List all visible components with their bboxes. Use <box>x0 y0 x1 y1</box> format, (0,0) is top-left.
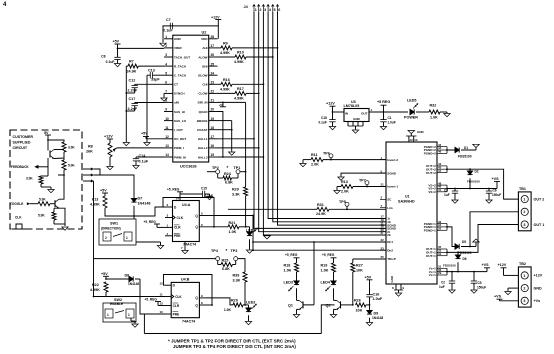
diode D8 1N4148 <box>105 278 107 280</box>
capacitor C2 1uF <box>451 271 453 273</box>
svg-text:SGND: SGND <box>387 171 397 175</box>
svg-text:13: 13 <box>165 144 169 148</box>
regulator U3 LM78L05 body <box>344 109 369 122</box>
U3 ground pins <box>347 122 349 127</box>
svg-text:9: 9 <box>165 108 167 112</box>
U2 pin 3 TACH_OUT <box>164 56 173 58</box>
svg-text:D7: D7 <box>138 197 143 201</box>
svg-text:5: 5 <box>274 8 276 12</box>
svg-text:R11: R11 <box>311 153 318 157</box>
svg-text:TP6: TP6 <box>323 151 330 155</box>
svg-text:OUT 2: OUT 2 <box>534 197 545 201</box>
svg-text:10: 10 <box>165 117 169 121</box>
svg-text:+12V: +12V <box>534 274 543 278</box>
U1 pin 47 OUT=2 <box>437 172 447 174</box>
resistor R13 4.99K <box>103 196 107 208</box>
svg-text:4: 4 <box>165 62 167 66</box>
svg-text:18: 18 <box>211 126 215 130</box>
svg-text:R13: R13 <box>341 180 348 184</box>
svg-text:CLR: CLR <box>173 304 180 308</box>
svg-text:GND: GND <box>534 286 543 290</box>
U1 pin 48 VS=2 <box>437 184 447 186</box>
svg-text:D1: D1 <box>464 146 468 150</box>
ground at SW1 <box>136 241 161 243</box>
U1 pin 21 Invert-1 <box>380 186 386 188</box>
wire VS=2 net <box>447 188 497 190</box>
svg-text:+5_REG: +5_REG <box>322 253 335 257</box>
svg-text:C7: C7 <box>166 18 171 22</box>
svg-text:CHI: CHI <box>202 83 207 87</box>
svg-text:+12V: +12V <box>326 102 335 106</box>
svg-text:R32: R32 <box>430 104 437 108</box>
wire PGND=2 junction bar <box>446 147 448 154</box>
U2 pin 5 C_TACH <box>164 74 173 76</box>
svg-text:R39: R39 <box>233 273 240 277</box>
svg-text:R20: R20 <box>231 299 238 303</box>
wire R31 left segment <box>228 208 314 210</box>
svg-text:* JUMPER TP1 & TP2 FOR DIRECT: * JUMPER TP1 & TP2 FOR DIRECT DIR CTL (E… <box>168 339 296 344</box>
U1 pin 40 VS=2 <box>437 188 447 190</box>
U1 pin 41 VS=2 <box>437 191 447 193</box>
U4:A pin 5 Q <box>199 215 214 217</box>
svg-text:150uF: 150uF <box>492 193 501 197</box>
wire Q1 base <box>303 242 314 305</box>
svg-text:2.2nF: 2.2nF <box>128 89 138 93</box>
svg-text:I_OUT: I_OUT <box>174 128 183 132</box>
switch SW2 ENABLE <box>103 303 136 322</box>
wire J4 pin4 vertical to DIR line <box>268 12 386 219</box>
LED LED5 POWER <box>410 109 414 114</box>
svg-text:U2: U2 <box>202 31 207 35</box>
svg-text:GND: GND <box>417 130 425 134</box>
ground at SW2 <box>130 318 132 321</box>
svg-text:2l: 2l <box>381 231 384 235</box>
op-amp U1 SA306 body <box>386 142 437 284</box>
terminal block TB2 <box>518 267 531 307</box>
wire J4 pin1 vertical + bend to U1 bus <box>254 12 386 228</box>
svg-text:Dir2: Dir2 <box>387 248 393 252</box>
U2 pin 25 BHI <box>209 65 218 67</box>
svg-text:0.1uF: 0.1uF <box>163 29 173 33</box>
wire R13 to SW1 node <box>105 208 134 216</box>
svg-text:1: 1 <box>523 198 525 202</box>
svg-text:0.1uF: 0.1uF <box>139 160 149 164</box>
svg-text:27: 27 <box>211 44 215 48</box>
svg-text:R29: R29 <box>232 187 239 191</box>
connector J4 pin 1 <box>253 5 256 13</box>
svg-text:31: 31 <box>438 252 442 256</box>
resistor R29 3.3K <box>244 187 248 196</box>
svg-text:16: 16 <box>211 144 215 148</box>
U2 pin 1 GND <box>164 38 173 40</box>
svg-text:4.99K: 4.99K <box>220 87 230 91</box>
resistor R19 1.0K <box>332 263 336 272</box>
svg-text:4.99K: 4.99K <box>234 96 244 100</box>
U2 pin 23 CHI <box>209 83 218 85</box>
svg-text:+Vs: +Vs <box>534 299 541 303</box>
U1 pin 2l 2b <box>380 234 386 236</box>
svg-text:TB2: TB2 <box>519 262 526 266</box>
svg-text:SA306HD: SA306HD <box>398 200 415 204</box>
U1 pin 16 SGND <box>380 227 386 229</box>
svg-text:Dir1: Dir1 <box>387 240 393 244</box>
capacitor C5 150uF <box>473 271 475 273</box>
svg-text:R19: R19 <box>321 263 328 267</box>
svg-text:OC_RET: OC_RET <box>174 137 186 141</box>
svg-text:32: 32 <box>438 227 442 231</box>
dashed box customer supplied circuit <box>10 130 82 229</box>
svg-text:C17: C17 <box>129 97 136 101</box>
U1 bottom pins GND <box>395 284 397 290</box>
svg-text:4.99K: 4.99K <box>90 288 100 292</box>
ground at C5 <box>471 290 477 293</box>
diode D2 FDS5100 <box>469 169 471 171</box>
svg-text:+5V: +5V <box>141 132 148 136</box>
wire U3 output <box>369 111 408 113</box>
svg-text:C14: C14 <box>139 154 147 158</box>
svg-text:5: 5 <box>165 71 167 75</box>
svg-text:+5V: +5V <box>113 40 120 44</box>
transistor Q upper <box>49 151 51 158</box>
diode D5 FDS5100 <box>455 244 459 249</box>
customer box output arrow a <box>83 168 91 170</box>
svg-text:R27: R27 <box>356 263 363 267</box>
U4:B toggle feedback loop wire <box>164 275 213 306</box>
wire J4 pin2 vertical + bend to U1 bus <box>259 12 386 232</box>
svg-text:OUT=2: OUT=2 <box>426 171 436 175</box>
svg-text:U3: U3 <box>351 100 356 104</box>
U4:B pin 10 PRE <box>165 313 171 315</box>
svg-text:3.3K: 3.3K <box>233 278 241 282</box>
ground at D5 <box>470 246 476 248</box>
svg-text:28: 28 <box>211 35 215 39</box>
svg-text:VS=2: VS=2 <box>428 190 436 194</box>
svg-text:+12V: +12V <box>104 135 113 139</box>
U1 pin 45 OUT=2 <box>437 168 447 170</box>
resistor R13 2.0K <box>341 185 353 189</box>
wire toggle collector <box>59 175 64 199</box>
svg-text:0.1uF: 0.1uF <box>319 120 327 124</box>
connector J4 pin 4 <box>267 5 270 13</box>
svg-text:1: 1 <box>128 313 130 317</box>
U1 pin 5 SGND <box>380 172 386 174</box>
svg-text:4.99K: 4.99K <box>234 60 244 64</box>
ground at U3 <box>352 130 358 133</box>
svg-text:1: 1 <box>165 35 167 39</box>
svg-text:FDS5100: FDS5100 <box>467 179 480 183</box>
resistor R26 10K <box>356 303 367 307</box>
svg-text:+5_REG: +5_REG <box>285 253 298 257</box>
svg-text:13: 13 <box>414 138 418 142</box>
svg-text:D2: D2 <box>475 170 479 174</box>
ground at C3 <box>452 200 458 203</box>
svg-text:11: 11 <box>165 126 169 130</box>
svg-text:U4:B: U4:B <box>181 277 190 281</box>
svg-text:Vs=1: Vs=1 <box>429 273 436 277</box>
resistor R17 4.99K <box>218 92 236 94</box>
ground at C18 <box>329 127 335 130</box>
wire PGND=2 net <box>447 149 476 151</box>
U1 pin 44 PGND=2 <box>437 149 447 151</box>
svg-text:4.99K: 4.99K <box>220 51 230 55</box>
ground at C2 <box>449 290 455 293</box>
svg-text:2: 2 <box>523 287 525 291</box>
wire C13 to rail <box>146 75 148 142</box>
svg-text:CT: CT <box>174 83 178 87</box>
resistor R18 1.0K <box>295 263 299 272</box>
svg-text:CUSTOMER: CUSTOMER <box>13 135 34 139</box>
svg-text:23: 23 <box>381 246 385 250</box>
TB1 terminal 2 <box>521 208 528 215</box>
svg-text:U4:A: U4:A <box>182 203 191 207</box>
svg-text:+VS: +VS <box>482 263 490 267</box>
svg-text:LED4: LED4 <box>321 281 331 285</box>
ground at D9 <box>366 323 372 326</box>
svg-text:1.0uF: 1.0uF <box>388 120 396 124</box>
svg-text:HALL3: HALL3 <box>198 155 208 159</box>
ground at R11 left <box>303 159 306 161</box>
U2 pin 9 SAS_HI <box>164 111 173 113</box>
U4:B clock junction <box>93 296 95 298</box>
resistor 5.0K toggle <box>38 202 50 206</box>
U2 pin 7 SYNCH <box>164 92 173 94</box>
svg-text:R18: R18 <box>284 263 291 267</box>
svg-text:FDS5100: FDS5100 <box>458 155 472 159</box>
TB2 terminal 2 <box>521 285 528 292</box>
resistor R22 4.99K <box>104 282 108 292</box>
transistor Q2 <box>340 301 342 308</box>
resistor R21 1.0K <box>228 225 239 229</box>
transistor Q1 <box>302 301 304 308</box>
svg-text:+5 REG: +5 REG <box>377 100 390 104</box>
svg-text:*: * <box>226 248 228 253</box>
connector J4 pin 6 <box>276 5 279 13</box>
svg-text:C6: C6 <box>493 189 497 193</box>
svg-text:21: 21 <box>211 99 215 103</box>
svg-text:OUT: OUT <box>361 111 368 115</box>
svg-text:SAS_HI: SAS_HI <box>174 110 185 114</box>
svg-text:3: 3 <box>523 299 525 303</box>
svg-text:1: 1 <box>255 8 257 12</box>
svg-text:uIN: uIN <box>174 101 179 105</box>
svg-text:TP1: TP1 <box>234 166 241 170</box>
wire PGND=1 junction bar <box>446 224 448 231</box>
U1 pin 19 1b <box>380 221 386 223</box>
svg-text:C12: C12 <box>129 79 136 83</box>
svg-text:2: 2 <box>523 210 525 214</box>
ground at C13 rail <box>144 143 150 146</box>
U1 pin 31 Vs=1 <box>437 267 447 269</box>
ground at U2 pin1 <box>162 39 164 43</box>
U1 pin 22 Dir1 <box>380 241 386 243</box>
svg-text:+5V: +5V <box>100 189 107 193</box>
svg-text:1.0K: 1.0K <box>229 230 237 234</box>
wire J4 pin6 vertical to R10 net <box>278 12 387 225</box>
resistor R20 1.0K <box>206 298 233 305</box>
svg-text:+5V: +5V <box>101 272 108 276</box>
svg-text:CLR: CLR <box>174 226 181 230</box>
ground below U1 <box>395 293 401 296</box>
ground at Q2 <box>330 315 336 318</box>
U4:B pin 11 CLK <box>165 296 171 298</box>
svg-text:+VS: +VS <box>492 177 500 181</box>
wire HALL1 to J4 line1 <box>218 138 255 140</box>
svg-text:PGND=2: PGND=2 <box>424 152 436 156</box>
svg-text:+5_REG: +5_REG <box>144 220 157 224</box>
U2 pin 14 PWM_HI <box>164 156 173 158</box>
svg-text:23: 23 <box>211 81 215 85</box>
wire COAST to ground column <box>218 129 232 131</box>
svg-text:DIR_IN: DIR_IN <box>198 101 208 105</box>
ground at BRAKE/COAST <box>229 152 235 155</box>
resistor R10 4.99K <box>218 56 236 58</box>
U4:B pin 8 Qbar <box>199 304 212 306</box>
U1 pin 32 PGND=1 <box>437 229 447 231</box>
svg-text:Q2: Q2 <box>326 304 331 308</box>
svg-text:CIRCUIT: CIRCUIT <box>13 146 28 150</box>
TB2 terminal 1 <box>521 272 528 279</box>
U4:A ground pin 7 <box>184 242 186 251</box>
U2 pin 18 COAST <box>209 129 218 131</box>
svg-text:TP4: TP4 <box>211 249 219 253</box>
U1 pin 7 Lim <box>380 207 386 209</box>
svg-text:POWER: POWER <box>404 116 418 120</box>
wire R29 column vertical <box>245 102 247 187</box>
wire direction line b to D7 column <box>94 175 134 196</box>
wire direction line to U1 <box>253 241 386 243</box>
resistor R32 1.0K <box>429 110 440 114</box>
U4:B +5_REG at CLR <box>158 305 165 307</box>
wire customer top rail <box>48 140 64 142</box>
power +5V at OC_RET <box>146 138 164 140</box>
capacitor C16 1.0uF <box>366 294 372 296</box>
U1 top pins GND <box>408 136 410 142</box>
resistor R16 4.99K <box>218 83 222 85</box>
wire J4 pin5 vertical to R9 net <box>273 12 386 222</box>
svg-text:46: 46 <box>438 150 442 154</box>
U1 pin 11 SGND <box>380 224 386 226</box>
svg-text:6: 6 <box>278 8 280 12</box>
wire VS=2 junction bar <box>446 185 448 192</box>
wire TP3 to R39 column <box>238 259 245 272</box>
svg-text:2: 2 <box>105 236 107 240</box>
wire BRAKE to ground column <box>218 120 232 122</box>
svg-text:+12V: +12V <box>211 16 220 20</box>
ground at TB2 pin2 <box>508 287 518 289</box>
svg-text:3.3K: 3.3K <box>232 192 240 196</box>
wire dir2 line to U1 <box>253 249 386 251</box>
svg-text:3: 3 <box>264 8 266 12</box>
wire OUT=1 junction bar <box>446 249 448 256</box>
svg-text:1: 1 <box>107 313 109 317</box>
svg-text:QUAD: QUAD <box>199 110 209 114</box>
svg-text:*: * <box>227 165 229 170</box>
svg-text:TOGGLE: TOGGLE <box>10 202 23 206</box>
wire DIR_IN to R29 column <box>218 101 246 103</box>
svg-text:0.1uF: 0.1uF <box>106 60 115 64</box>
customer box output arrow c <box>83 180 91 182</box>
wire enable bottom rail <box>144 305 334 334</box>
U4:A pin 14 VCC with +5_REG <box>179 194 181 201</box>
ground at LED1 <box>246 250 252 253</box>
svg-text:C2: C2 <box>441 281 445 285</box>
svg-text:R9: R9 <box>223 42 228 46</box>
svg-text:Q1: Q1 <box>288 304 293 308</box>
svg-text:TDisP: TDisP <box>387 257 396 261</box>
U4:B pin 12 D <box>165 284 171 286</box>
U1 pin 36 PGND=1 <box>437 223 447 225</box>
U2 pin 16 HALL2 <box>209 147 218 149</box>
svg-text:HALL1: HALL1 <box>198 137 208 141</box>
wire SGND to ground <box>341 173 386 176</box>
U2 pin 21 DIR_IN <box>209 101 218 103</box>
svg-text:25: 25 <box>381 255 385 259</box>
svg-text:41: 41 <box>438 188 442 192</box>
TB1 terminal 1 <box>521 196 528 203</box>
wire R39 to LED2 node <box>244 282 246 305</box>
U2 pin 12 OC_RET <box>164 138 173 140</box>
svg-text:CLK: CLK <box>177 216 184 220</box>
wire R29 to LED1 node <box>245 196 247 227</box>
svg-text:1.0K: 1.0K <box>284 268 292 272</box>
wire BRAKE/COAST ground column <box>231 121 233 152</box>
svg-text:COAST: COAST <box>197 128 208 132</box>
wire R22 to clock line <box>94 292 107 297</box>
resistor 5.0K clk <box>52 212 56 220</box>
power +12V at R8 <box>107 138 113 140</box>
svg-text:CLOW: CLOW <box>198 92 207 96</box>
ground above U1 <box>410 134 412 137</box>
U2 pin 11 I_OUT <box>164 129 173 131</box>
ground at C8 <box>114 64 120 67</box>
svg-text:3: 3 <box>523 223 525 227</box>
svg-text:D6: D6 <box>463 257 467 261</box>
wire OUT=2 net to TB1 pin1 <box>447 169 518 199</box>
svg-text:AHI: AHI <box>202 46 207 50</box>
svg-text:CLK: CLK <box>175 295 182 299</box>
wire VREF <box>118 47 165 49</box>
ground at U2 SYNCH <box>163 93 165 97</box>
svg-text:1.0uF: 1.0uF <box>373 297 383 301</box>
wire D8 to U4:B PRE <box>140 279 165 314</box>
U1 pin 35 OUT=1 <box>437 248 447 250</box>
wire J4 pin3 vertical + bend to U1 bus <box>263 12 386 235</box>
wire SW1 node to U4A D input <box>134 207 165 216</box>
diode D6 FDS5100 <box>457 252 459 255</box>
wire TB1 pin2 net <box>470 212 518 247</box>
U1 pin 25 TDisP <box>380 258 386 260</box>
op-amp U2 UCC3626 body <box>173 35 209 162</box>
ground at C1 <box>380 127 386 130</box>
svg-text:R22: R22 <box>92 283 99 287</box>
svg-text:2.0K: 2.0K <box>341 189 349 193</box>
resistor R24 6.8K jumper <box>217 174 219 178</box>
svg-text:R17: R17 <box>237 87 244 91</box>
wire OUT=2 junction bar <box>446 166 448 173</box>
svg-text:UCC3626: UCC3626 <box>180 165 197 169</box>
svg-text:JUMPER TP3 & TP4 FOR DIRECT DI: JUMPER TP3 & TP4 FOR DIRECT DIS CTL (INT… <box>173 344 296 349</box>
svg-text:SUPPLIED: SUPPLIED <box>13 141 31 145</box>
svg-text:LED1: LED1 <box>246 228 255 232</box>
svg-text:7: 7 <box>165 90 167 94</box>
svg-text:24.9K: 24.9K <box>316 212 326 216</box>
svg-text:5V: 5V <box>44 131 49 135</box>
svg-text:TACH_OUT: TACH_OUT <box>174 55 190 59</box>
svg-text:C18: C18 <box>321 116 327 120</box>
svg-text:21: 21 <box>381 183 385 187</box>
capacitor C6 150uF <box>488 188 490 190</box>
U4:A pin 3 CLK <box>165 217 173 219</box>
